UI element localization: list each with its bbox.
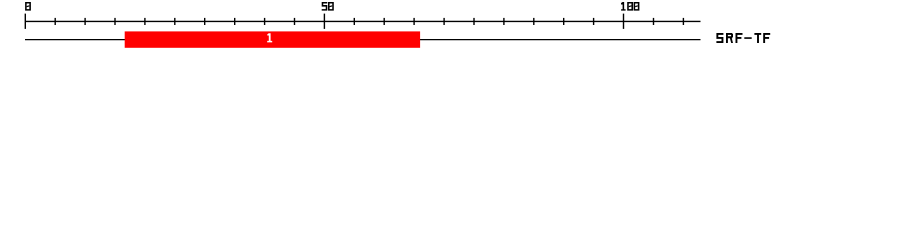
ruler major ticks 0 / 50 / 100: [25, 14, 623, 29]
domain number 1: [267, 33, 272, 42]
ruler label 50: [322, 2, 334, 11]
ruler line: [25, 20, 701, 22]
ruler label 100: [621, 2, 639, 11]
ruler minor ticks: [55, 18, 683, 25]
domain name SRF-TF: [716, 33, 770, 43]
domain box 1 (SRF-TF): [125, 31, 420, 47]
sequence line: [25, 39, 701, 41]
ruler label 0: [25, 2, 31, 11]
